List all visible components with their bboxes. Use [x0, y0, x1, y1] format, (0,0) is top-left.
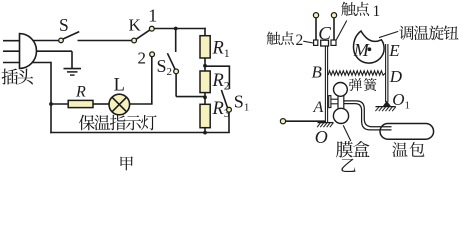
- pivot O1 triangle: [383, 101, 392, 107]
- wire R to lamp: [93, 103, 109, 105]
- membrane box plunger plate: [329, 96, 331, 108]
- wire S1 terminal down: [228, 65, 230, 89]
- contact 1 pad: [331, 40, 336, 45]
- wire left vertical: [50, 62, 52, 134]
- label 调温旋钮: [399, 25, 458, 40]
- wire lamp to contact2 riser: [130, 103, 153, 105]
- svg-text:L: L: [114, 76, 125, 96]
- label 乙: [341, 159, 355, 172]
- rod ED: [386, 44, 388, 102]
- membrane box neck: [338, 96, 344, 109]
- wire R2 to R3: [204, 93, 206, 105]
- svg-text:B: B: [312, 63, 323, 82]
- svg-text:E: E: [388, 41, 400, 60]
- wire plug middle to ground: [37, 50, 73, 52]
- svg-text:K: K: [129, 15, 142, 34]
- lamp L: [109, 94, 130, 115]
- wire terminal to lever: [286, 120, 326, 122]
- label 插头: [2, 69, 34, 85]
- svg-text:S1: S1: [234, 92, 250, 114]
- contact 1: [149, 26, 154, 31]
- wire plug bottom: [33, 62, 52, 64]
- svg-text:2: 2: [296, 32, 304, 49]
- wire R1 to R2: [204, 58, 206, 71]
- terminal circle right: [331, 13, 336, 18]
- capillary tube outer line: [344, 101, 392, 127]
- capillary tube inner line: [344, 104, 392, 130]
- membrane box top capsule: [334, 83, 348, 97]
- pivot O hatching: [317, 123, 333, 128]
- wire R1R2 node to S1: [205, 65, 229, 67]
- membrane box bottom capsule: [333, 108, 348, 123]
- contact 2: [150, 52, 155, 57]
- resistor R1: [200, 36, 210, 58]
- label 触点1: [341, 2, 369, 16]
- pointer 触点1: [336, 21, 346, 40]
- node R1-R2: [203, 64, 207, 68]
- node junction top: [174, 27, 178, 31]
- plug (插头) body: [20, 34, 37, 69]
- switch S2 pivot: [174, 69, 179, 74]
- label 甲: [121, 156, 133, 170]
- membrane box pins: [331, 99, 339, 104]
- pointer 调温旋钮: [379, 31, 398, 37]
- switch S1 pivot: [227, 107, 232, 112]
- wire node to R: [51, 103, 68, 105]
- node lamp branch: [49, 102, 53, 106]
- cam center dot: [368, 47, 372, 51]
- label 弹簧: [349, 78, 377, 91]
- corner top chain: [204, 28, 206, 30]
- svg-text:2: 2: [138, 49, 147, 68]
- svg-text:S: S: [59, 15, 69, 35]
- svg-text:1: 1: [148, 6, 157, 26]
- pivot O1 hatching: [375, 107, 395, 112]
- label 触点2: [267, 31, 294, 44]
- terminal circle bottom-left: [280, 119, 285, 124]
- wire S to K: [78, 40, 133, 42]
- switch K blade to contact 1: [136, 30, 150, 39]
- wire contact1 to chain: [154, 28, 206, 30]
- svg-text:D: D: [389, 67, 403, 86]
- temperature bulb (温包): [380, 124, 434, 140]
- wire plug to S: [33, 40, 60, 42]
- node chain bottom: [203, 131, 207, 135]
- resistor R3: [200, 104, 210, 127]
- contact 2 pad: [314, 40, 318, 45]
- svg-text:R2: R2: [212, 71, 230, 92]
- terminal circle left: [313, 13, 318, 18]
- svg-text:R: R: [75, 84, 86, 101]
- switch S2 blade (open): [167, 53, 175, 69]
- wire down to ground: [71, 51, 73, 68]
- label 温包: [392, 142, 424, 157]
- lever top bracket C: [321, 40, 329, 46]
- svg-text:A: A: [313, 99, 324, 116]
- resistor R2: [200, 71, 210, 93]
- plug pin middle: [3, 50, 20, 52]
- wire junction to S2 terminal: [175, 29, 177, 53]
- pointer 触点2: [303, 41, 313, 43]
- cam M (调温旋钮): [353, 31, 384, 63]
- terminal lead right (to contact 1): [333, 18, 335, 40]
- svg-text:M: M: [353, 40, 370, 60]
- switch S pivot: [59, 38, 64, 43]
- plug pin top: [3, 40, 20, 42]
- lever bar: [325, 46, 327, 123]
- spring (弹簧): [328, 71, 385, 75]
- svg-text:1: 1: [373, 3, 381, 20]
- wire S2 to R2R3 node: [176, 96, 205, 98]
- label 膜盒: [336, 141, 369, 157]
- pointer 膜盒: [343, 125, 351, 141]
- wire top to R1: [204, 28, 206, 37]
- terminal lead left (to contact 2): [315, 18, 317, 40]
- svg-text:O1: O1: [392, 90, 410, 111]
- switch S blade (open): [63, 32, 79, 39]
- wire R3 to bottom: [204, 128, 206, 133]
- ground symbol: [64, 69, 82, 76]
- node R2-R3: [203, 95, 207, 99]
- switch S1 blade (open): [221, 90, 227, 108]
- switch K pivot: [132, 38, 137, 43]
- wire S1 to bottom: [228, 112, 230, 133]
- wire bottom rail: [50, 132, 230, 134]
- svg-text:R1: R1: [212, 39, 230, 60]
- resistor R: [68, 100, 93, 107]
- plug pin bottom: [3, 62, 20, 64]
- wire contact2 down to lamp branch: [151, 57, 153, 105]
- wire S2 down: [175, 74, 177, 97]
- label 保温指示灯: [79, 115, 157, 130]
- svg-text:O: O: [315, 127, 328, 147]
